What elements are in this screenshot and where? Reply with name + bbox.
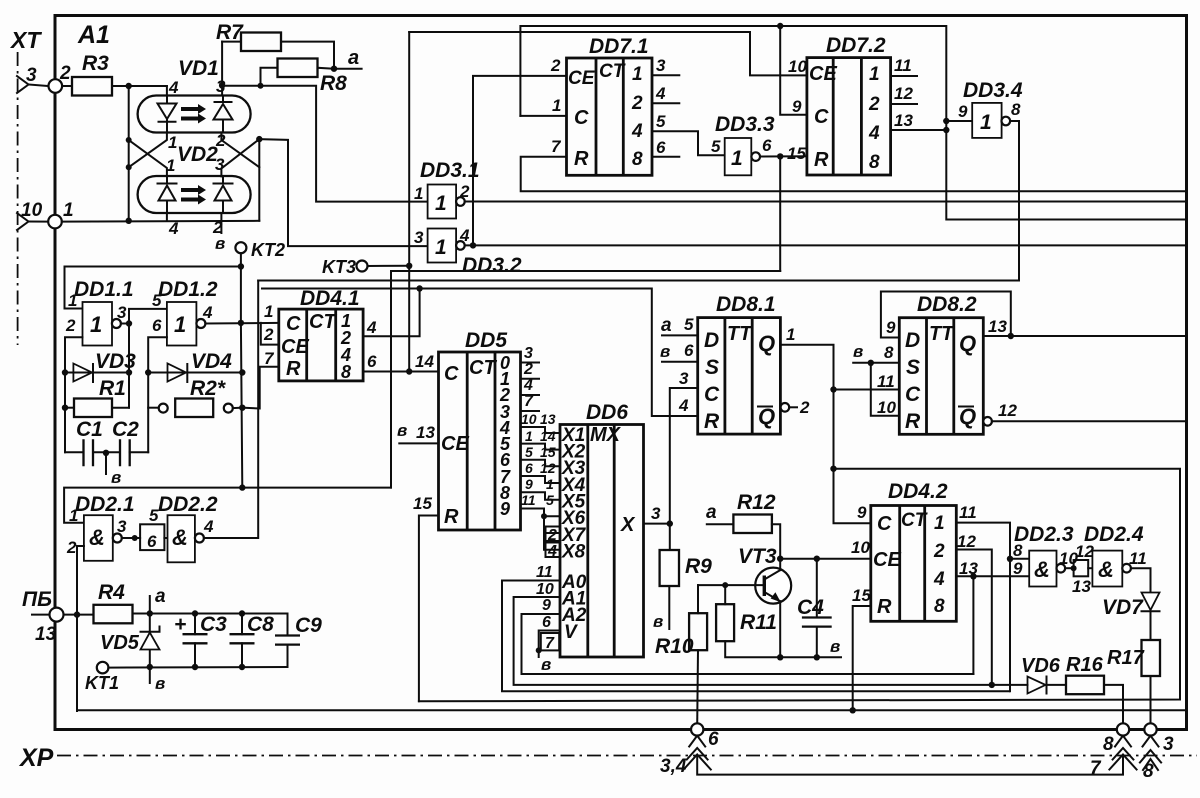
svg-text:VD2: VD2 [177,143,218,166]
svg-text:R4: R4 [98,581,125,604]
wire R11 top tap [724,585,726,604]
connector arrow 3,4 below terminal 6 [684,736,1123,775]
svg-text:DD1.2: DD1.2 [158,278,218,301]
wire DD2.4 out to VD7 [1131,568,1151,592]
wire DD5 R loop down to y=701 line [419,516,439,702]
svg-text:5: 5 [684,315,694,334]
svg-text:VD4: VD4 [191,350,232,373]
wire DD6 A2 pin9 loop [522,614,974,674]
svg-text:4: 4 [168,78,179,97]
svg-text:8: 8 [1013,541,1023,560]
svg-text:R9: R9 [685,555,712,578]
svg-text:в: в [155,674,165,693]
gate DD1.1 inverter [83,302,121,346]
svg-text:R: R [814,149,829,171]
wire collector row to DD4.2 CE [780,558,871,560]
svg-text:в: в [660,342,670,361]
wire DD8.2 S stub (в) [853,362,899,364]
svg-text:1: 1 [264,302,273,321]
svg-text:R12: R12 [737,491,776,514]
wire R12 right down to collector node [772,524,780,559]
svg-text:11: 11 [536,564,553,581]
wire VD6 row from dot [992,684,1066,686]
svg-text:1: 1 [525,428,533,444]
gate DD2.1 nand [84,515,122,561]
terminal circle 2 (on A1 border) [49,79,63,93]
zener VD5 [141,596,160,667]
wire DD7.1 out8 stub pin6 [652,156,679,158]
svg-text:C: C [286,313,301,335]
svg-text:4: 4 [547,543,557,560]
connector arrow 8 below terminal 3 [1140,736,1161,770]
svg-text:1: 1 [435,192,447,215]
wire R7 left to pin3 column [222,41,241,43]
wire bus y=201.5 from DD3.1 out [465,201,1187,203]
svg-text:R: R [574,148,589,170]
wire KT3 to x=409 vertical [368,265,410,267]
wire DD1.2 out to DD4.1 C [205,322,278,325]
wire DD7.1 out1 stub pin3 [652,74,679,76]
wire R7 right to a-node [281,42,334,69]
svg-text:R10: R10 [655,635,694,658]
wire DD2.2 out up to line B [204,281,258,539]
node dot C4 top [814,556,820,562]
capacitor C4 [802,559,832,658]
svg-text:в: в [653,612,663,631]
diode VD6 [1028,677,1047,694]
svg-text:a: a [661,315,672,336]
wire ПБ to R4 [64,614,94,616]
wire mid tap в stub [105,453,107,474]
wire x=409 vertical (KT3 / DD5-C net) [408,32,410,372]
svg-text:в: в [215,234,225,253]
capacitor C2 [120,439,130,466]
svg-text:8: 8 [869,152,880,173]
svg-text:2: 2 [65,316,76,335]
svg-text:2: 2 [547,527,557,544]
svg-text:10: 10 [851,538,870,557]
wire gnd row R11/VT3e/C4 [725,641,841,657]
node dot KT3 [406,263,412,269]
wire R3 to VD1 pin4, dot at x=128.7 [112,85,167,87]
svg-text:3,4: 3,4 [660,756,687,777]
wire from dot right then down to DD3.2 input [259,139,427,246]
svg-text:Q: Q [758,404,775,429]
svg-text:CE: CE [568,68,596,89]
wire KT2 column continues down [241,323,242,488]
svg-text:CT: CT [469,357,497,379]
wire base row [698,584,764,586]
svg-text:3: 3 [651,504,661,523]
svg-text:15: 15 [852,586,871,605]
svg-text:C2: C2 [112,418,139,441]
svg-text:KT3: KT3 [322,257,356,277]
svg-text:S: S [705,356,719,379]
terminal circle 8 (on A1 bottom border) [1117,723,1129,735]
svg-text:1: 1 [731,147,743,170]
optocoupler VD1 body [138,96,251,133]
svg-text:VD6: VD6 [1021,655,1061,677]
capacitor C8 [230,614,255,668]
resistor R17 [1142,640,1161,676]
svg-text:3: 3 [524,345,533,362]
svg-text:7: 7 [1090,758,1102,779]
svg-text:2: 2 [868,94,880,115]
node dot clock/DD7.2-C branch [777,23,783,29]
svg-text:10: 10 [21,200,43,221]
diode VD3 [73,364,93,383]
svg-text:CE: CE [809,63,837,85]
wire R16 right down to terminal 8 [1104,685,1123,725]
wire DD7.2 out1 stub pin11 [891,75,917,77]
svg-text:1: 1 [869,64,880,85]
wire VT3 collector up [779,559,781,570]
svg-text:2: 2 [459,182,470,201]
wire VT3 emitter down to gnd row [779,601,781,657]
wire circle2 to R3 [62,85,72,87]
pin box V pin7 [541,633,559,650]
svg-text:C: C [905,383,921,406]
svg-text:DD7.1: DD7.1 [589,35,649,58]
svg-text:R: R [905,410,921,433]
svg-text:6: 6 [684,341,694,360]
svg-text:9: 9 [500,499,510,519]
node a dot [331,66,337,72]
pin box X7 pin2 [546,527,561,542]
resistor R11 [716,604,734,641]
wire KT2 loop to DD1.1 pin1 [65,267,241,309]
svg-text:KT2: KT2 [251,240,285,260]
svg-text:1: 1 [980,111,992,134]
node dot X output / R9 [667,520,673,526]
wire R2 right [233,407,243,409]
wire pin3 node to DD3.1 input [222,86,428,202]
svg-text:R17: R17 [1107,647,1145,669]
node dot x409/DD5-C [406,368,412,374]
wire DD7.1 out2 stub pin4 [652,102,679,104]
svg-text:13: 13 [894,111,913,130]
terminal circle 3 (on A1 bottom border) [1144,723,1156,735]
svg-text:4: 4 [631,121,643,142]
svg-text:3: 3 [117,303,127,322]
wire DD2.3 pin8 [1010,558,1029,560]
svg-text:D: D [905,329,920,352]
wire 470-line to right edge loop [419,469,1180,702]
node dot DD4.1-out2 on line C [416,285,422,291]
svg-text:6: 6 [525,460,533,476]
wire R8 right to a-node [318,67,362,70]
svg-text:13: 13 [988,317,1007,336]
wire DD8.1 S stub (в) [662,361,698,363]
node dot KT2 loop [238,263,244,269]
wire DD8.2 D loop from Q [881,292,1011,338]
wire R4 right / supply rail to C9 [133,613,288,615]
wire R1 left [65,407,74,409]
svg-text:8: 8 [884,343,894,362]
wire R10 top [697,585,699,613]
svg-text:XT: XT [9,27,42,53]
svg-text:C: C [574,107,589,129]
svg-text:9: 9 [525,476,533,492]
node dot C1/C2 mid tap [103,450,109,456]
svg-text:S: S [906,356,920,379]
wire DD4.1 out8 pin6 to DD5 C [363,371,438,373]
node dot R2-column on DD2 line [239,484,245,490]
wire line B y=280.5 (DD2.2-out / DD3.4-out) [258,280,1019,282]
svg-text:1: 1 [632,64,643,85]
gate DD3.4 inverter [972,103,1010,138]
svg-text:TT: TT [929,323,955,345]
svg-text:7: 7 [551,137,562,156]
svg-text:3: 3 [679,369,689,388]
svg-text:1: 1 [63,200,74,221]
wire R8 left down to pin3 wire [261,68,278,86]
wire KT1 to caps bottom rail [108,666,287,669]
svg-text:C9: C9 [295,614,322,637]
wire S to R tie [871,363,900,416]
svg-text:10: 10 [521,411,537,427]
resistor R3 [72,77,112,96]
svg-text:10: 10 [877,398,896,417]
svg-text:6: 6 [708,729,719,750]
wire R17 down to terminal 3 [1150,676,1152,725]
svg-text:ПБ: ПБ [22,588,52,611]
gate DD3.2 inverter [428,229,465,263]
wire VD2 pin4 stub [166,213,168,221]
svg-text:11: 11 [959,503,977,522]
gate DD2.4 nand [1092,551,1130,587]
transistor VT3 [755,568,791,604]
svg-text:C: C [444,363,459,385]
connector XP dash-dot line [57,755,1197,757]
svg-text:C4: C4 [797,596,824,619]
wire DD4.1 out2 pin4 up to line C [363,289,420,337]
svg-text:8: 8 [1011,100,1021,119]
svg-text:6: 6 [152,316,162,335]
node dot DD4.2-C / 470 line [830,466,836,472]
svg-text:3: 3 [26,65,37,86]
connector arrow 7 below terminal 8 [1109,736,1136,770]
wire DD7.1 C input [520,115,566,117]
svg-text:a: a [348,47,359,69]
svg-text:1: 1 [174,312,186,337]
wire DD1.1 pin2 from RC node [65,337,83,452]
diode VD7 (down) [1142,593,1160,612]
svg-text:X: X [620,514,636,536]
test point KT1 [97,662,109,674]
wire DD5 out4 pin10 to DD6 X1 pin13 [521,427,561,433]
wire R1 right [112,407,129,409]
svg-text:2: 2 [799,398,810,417]
wire VD2 pin2 stub + в tail [220,213,222,233]
svg-text:4: 4 [523,377,533,394]
wire VD1 pin1 diagonal to left column [129,132,167,167]
svg-text:VD1: VD1 [178,57,219,80]
bubble DD8.1 Qbar [781,403,790,412]
wire DD3.3-out down to line A [779,156,781,271]
svg-text:1: 1 [435,236,447,259]
resistor R10 [689,613,707,650]
wire R9 bottom stub to в [668,586,670,629]
svg-text:3: 3 [414,228,424,247]
svg-text:&: & [89,525,105,550]
node dot right column [256,136,262,142]
svg-text:DD3.4: DD3.4 [963,79,1023,102]
svg-text:DD8.2: DD8.2 [917,293,977,316]
svg-text:R11: R11 [740,611,777,634]
svg-text:11: 11 [1129,549,1147,568]
wire DD4.2 out4 pin13 to DD2.3 pin9 [956,575,1029,577]
svg-text:&: & [1098,557,1114,582]
svg-text:9: 9 [857,503,867,522]
resistor R12 [733,515,772,534]
svg-text:DD2.1: DD2.1 [75,493,135,516]
svg-text:1: 1 [934,513,945,534]
IC DD7.2 counter [807,58,891,175]
wire VD1 pin3 up to R7-left, dot at y=85.5 [221,42,223,96]
wire DD7.1 out4 pin5 to DD3.3 input [652,131,725,155]
capacitor C9 [275,614,300,668]
wire VD5 bottom / в tail [149,667,151,684]
svg-text:1: 1 [414,184,423,203]
node dot DD3.4 input branch [943,118,949,124]
svg-text:8: 8 [341,362,351,382]
wire DD2.1 pin2 from ПБ column [77,546,84,711]
svg-text:11: 11 [894,56,912,75]
svg-text:в: в [541,655,551,674]
svg-text:3: 3 [1163,734,1174,755]
pin jumper box DD2.4 pin12/13 [1074,560,1089,576]
svg-text:2: 2 [631,93,643,114]
wire DD8.2 C input [834,389,900,391]
wire R2 left [148,407,159,409]
svg-text:4: 4 [366,318,377,337]
terminal ПБ circle (on A1 border) [50,608,64,622]
svg-text:7: 7 [264,349,275,368]
svg-text:MX: MX [590,424,622,446]
wire clock line y=26 (DD7.1-C / DD7.2 loop) [520,26,1186,220]
XT pin 10 arrow [17,213,48,230]
svg-text:XP: XP [18,744,54,772]
capacitor C1 [84,439,94,466]
wire DD6 X output pin3 [644,523,670,525]
svg-text:15: 15 [787,144,806,163]
wire ПБ external stub [32,614,50,616]
svg-text:CT: CT [599,61,626,82]
svg-text:5: 5 [152,291,162,310]
svg-text:6: 6 [147,532,157,551]
svg-text:9: 9 [792,97,802,116]
svg-text:в: в [397,421,407,440]
svg-text:DD4.2: DD4.2 [888,480,948,503]
wire DD6 A0 pin11 loop [502,581,1009,692]
IC DD8.2 flip-flop [899,318,983,435]
wire line A y=271 (DD3.3-out to DD2.1-pin1 loop) [391,271,780,488]
svg-text:A1: A1 [77,21,110,49]
node dot DD3.2-out / DD7.1-CE branch [470,242,476,248]
svg-text:&: & [172,525,188,550]
svg-text:DD2.2: DD2.2 [158,493,218,516]
wire VD2 pin1 diagonal to left column [129,140,167,176]
wire DD7.2 out2 stub pin12 [891,103,917,105]
wire DD5 out3 stub pin7 [521,410,540,412]
wire DD7.1 R loop to bus y=191.3 [521,157,1187,192]
svg-text:8: 8 [632,149,643,170]
node dot R2/VD4/DD4.1-R [239,405,245,411]
wire left column x=128.7 down to bottom wire [128,86,130,221]
node dot collector [777,556,783,562]
svg-text:C1: C1 [76,418,103,441]
bubble DD8.2 Qbar [983,417,992,426]
wire DD7.2 out4 pin13 to right vertical [891,129,947,131]
wire DD5 CE stub (в 13) [399,442,438,444]
wire VD1 pin4 into body [166,86,168,96]
resistor R7 [241,33,281,52]
svg-text:2: 2 [933,541,945,562]
wire DD5 out7 pin6 to DD6 X4 pin12 [521,476,561,483]
wire bottom common: circle1 to x=259.3 [62,220,259,223]
svg-text:7: 7 [545,635,555,652]
wire bus y=245.4 from DD3.2 out [465,244,1187,246]
svg-text:9: 9 [1013,559,1023,578]
wire VD7 to R17 [1150,611,1152,640]
IC DD4.1 counter [279,309,363,382]
wire jumper to DD2.4 [1088,567,1092,569]
svg-text:CT: CT [901,510,928,531]
connector XT dash-dot line [17,52,19,345]
terminal circle 1 (on A1 border) [48,215,62,229]
wire DD2.3 out to jumper [1065,567,1074,569]
wire DD1.2 pin6 from C2/VD4 node [148,337,167,452]
diode VD4 [168,364,188,383]
IC DD8.1 flip-flop [698,318,781,435]
wire DD2.1 out to jumper [122,537,140,539]
gate DD2.3 nand [1029,551,1065,587]
svg-text:9: 9 [886,318,896,337]
svg-text:CE: CE [281,336,309,358]
svg-text:4: 4 [203,517,214,536]
node dot DD8.2 C branch [830,386,836,392]
wire DD5 out0 stub pin3 [521,362,540,364]
svg-text:11: 11 [521,492,536,508]
svg-text:R: R [704,410,720,433]
wire X7/X8 tie vertical [544,516,560,550]
svg-text:13: 13 [1072,577,1091,596]
gate DD3.1 inverter [428,185,465,219]
node dot KT2 column on DD1.2-out wire [238,320,244,326]
svg-text:CE: CE [441,433,469,455]
node dot X6/X7/X8 tie [541,513,547,519]
svg-text:Q: Q [959,404,976,429]
svg-text:VT3: VT3 [738,545,777,568]
wire DD4.2 out1 pin11 [956,523,1010,692]
svg-text:R7: R7 [216,21,244,44]
gate DD3.3 inverter [725,138,760,175]
svg-text:a: a [706,502,717,523]
svg-text:2: 2 [263,325,274,344]
svg-text:12: 12 [998,401,1017,420]
svg-text:+: + [174,613,186,636]
wire DD4.1 R to R2 node [242,367,278,409]
svg-text:4: 4 [459,226,470,245]
wire DD4.2 R loop to 710 bus [853,606,871,710]
svg-text:CE: CE [873,549,901,571]
wire VD1 pin2 diagonal to right column [221,132,259,167]
wire DD7.1 CE input from DD3.2 output column [473,76,567,246]
svg-text:13: 13 [416,423,435,442]
svg-text:4: 4 [655,84,666,103]
svg-text:R: R [286,358,301,380]
